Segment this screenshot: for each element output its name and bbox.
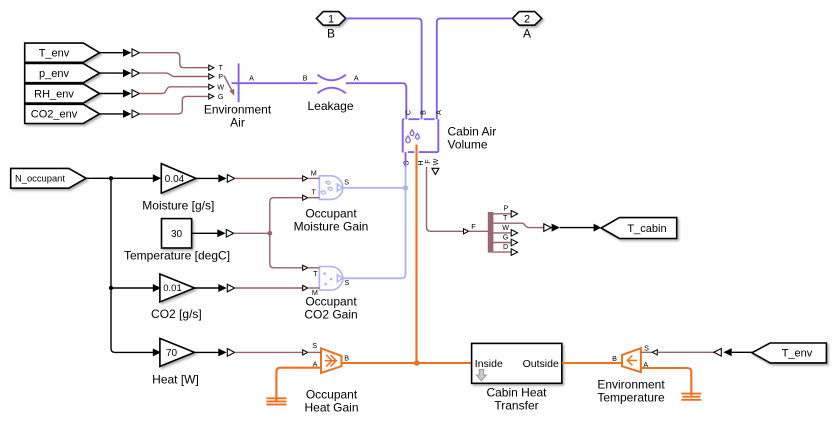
Environment Temperature source block (622, 348, 641, 372)
svg-text:T_env: T_env (782, 348, 813, 360)
goto tag T_cabin (601, 218, 677, 239)
wire CO2 gain to converter (195, 284, 235, 292)
svg-text:W: W (431, 158, 440, 165)
Occupant CO2 Gain port M (303, 285, 320, 297)
svg-text:Occupant: Occupant (305, 294, 357, 308)
Environment Temperature port S (641, 344, 657, 355)
svg-text:T: T (503, 213, 508, 222)
svg-text:Heat [W]: Heat [W] (152, 372, 199, 386)
svg-text:S: S (312, 341, 317, 350)
Leakage restriction block (318, 75, 346, 93)
svg-text:1: 1 (328, 14, 334, 26)
Occupant Moisture Gain label (294, 206, 369, 233)
constant block 30 (162, 219, 192, 248)
wire RH_env to converter (100, 90, 140, 98)
PS wire to Occupant CO2 Gain M port (235, 287, 303, 289)
Environment Air port W (209, 82, 225, 91)
svg-text:S: S (644, 344, 649, 353)
svg-text:B: B (419, 110, 428, 115)
Cabin Heat Transfer block (472, 343, 562, 383)
svg-text:S: S (344, 178, 349, 187)
svg-text:p_env: p_env (39, 68, 69, 80)
Occupant Moisture Gain source block (319, 176, 342, 200)
svg-text:CO2_env: CO2_env (31, 109, 78, 121)
svg-text:P: P (218, 72, 223, 81)
Cabin Heat Transfer down-arrow icon (477, 370, 487, 381)
wire N_occupant to Moisture gain (86, 174, 161, 182)
svg-text:Inside: Inside (475, 358, 503, 370)
Occupant Heat Gain label (304, 387, 358, 414)
wire N_occupant branch down (110, 178, 112, 288)
PS wire p_env to P port (139, 73, 208, 76)
sensor output D (493, 242, 517, 255)
Cabin Air Volume label (448, 125, 497, 152)
PS wire sensor T to converter (511, 223, 544, 227)
Environment Air source block U_env (224, 63, 243, 102)
svg-text:CO2 Gain: CO2 Gain (304, 307, 357, 321)
PS wire junction to Occupant Moisture Gain T port (270, 198, 303, 234)
wire inport 1 to Cabin Air Volume B port (346, 18, 422, 126)
measurement selector bar (488, 212, 494, 253)
svg-text:Temperature: Temperature (597, 391, 665, 405)
svg-text:P: P (504, 204, 509, 213)
svg-text:G: G (503, 233, 509, 242)
svg-text:B: B (327, 27, 335, 41)
from tag RH_env (25, 84, 100, 103)
wire Cabin Air Volume S port stub (405, 152, 407, 166)
PS wire CO2_env to G port (139, 96, 208, 114)
gain block Moisture 0.04 (161, 164, 196, 194)
Occupant CO2 Gain port T (303, 265, 320, 278)
wire CO2 Gain S to S network (343, 274, 406, 278)
svg-text:Occupant: Occupant (306, 387, 358, 401)
thermal reference ground right (681, 394, 701, 400)
svg-text:D: D (503, 242, 508, 251)
svg-text:A: A (434, 110, 443, 115)
wire branch to Heat gain (111, 288, 161, 356)
Cabin Heat Transfer label (486, 386, 547, 413)
wire F port into sensor bar (469, 230, 489, 232)
wire Occupant Heat Gain B to Inside (342, 362, 472, 364)
svg-text:B: B (612, 354, 617, 363)
svg-text:T_cabin: T_cabin (627, 223, 666, 235)
from tag T_env (top-left) (25, 43, 100, 62)
PS wire T_env to Environment Air T port (139, 53, 208, 68)
wire Moisture Gain S to junction (343, 187, 406, 189)
svg-text:CO2 [g/s]: CO2 [g/s] (151, 307, 202, 321)
Occupant Moisture Gain port T (303, 188, 320, 201)
PS wire 30 to junction (234, 232, 270, 234)
wire p_env to converter (100, 69, 140, 77)
PS wire RH_env to W port (139, 87, 208, 94)
wire Moisture gain to converter (196, 174, 235, 182)
svg-text:T: T (219, 63, 224, 72)
wire S network vertical (light blue) (405, 167, 407, 275)
from tag CO2_env (25, 104, 100, 123)
PS wire junction to Occupant CO2 Gain T port (270, 233, 303, 267)
svg-text:70: 70 (166, 348, 178, 359)
svg-text:Volume: Volume (448, 138, 488, 152)
svg-text:A: A (354, 74, 359, 83)
wire Heat gain to converter (195, 348, 235, 356)
svg-text:W: W (502, 223, 509, 232)
svg-text:Environment: Environment (204, 103, 272, 117)
wire Cabin Air Volume H port down to heat junction (415, 145, 417, 363)
wire 30 to converter (192, 229, 234, 237)
Cabin Air Volume block body (403, 119, 439, 152)
svg-text:Leakage: Leakage (307, 99, 353, 113)
from tag T_env (right) (752, 343, 827, 363)
Environment Temperature label (597, 378, 665, 405)
junction node heat (414, 360, 420, 366)
wire Environment Air A to Leakage B (243, 82, 318, 84)
svg-text:Air: Air (230, 116, 245, 130)
svg-text:C: C (403, 110, 412, 115)
junction node S network (403, 185, 408, 190)
gain block Heat 70 (160, 338, 195, 366)
svg-text:0.01: 0.01 (163, 283, 182, 294)
PS wire T_env to Environment Temperature S (657, 351, 714, 353)
Cabin Air Volume droplet icons (406, 130, 419, 143)
wire Environment Temperature A to thermal reference (641, 368, 691, 396)
svg-text:G: G (218, 92, 224, 101)
svg-text:Cabin Air: Cabin Air (448, 125, 497, 139)
gain block CO2 0.01 (160, 274, 195, 302)
Occupant Heat Gain source block (321, 348, 342, 373)
svg-text:Heat Gain: Heat Gain (304, 400, 358, 414)
svg-text:Cabin Heat: Cabin Heat (486, 386, 547, 400)
svg-text:2: 2 (524, 14, 530, 26)
svg-text:Moisture Gain: Moisture Gain (294, 219, 369, 233)
converter to T_cabin (544, 224, 601, 232)
svg-text:A: A (249, 74, 254, 83)
inport 2 hexagon (512, 12, 541, 26)
inport 1 hexagon (316, 12, 345, 26)
Environment Air port G (209, 92, 224, 101)
junction node on N_occupant wire (109, 176, 113, 180)
wire T_env to converter (100, 49, 140, 57)
from tag N_occupant (11, 168, 86, 188)
PS wire to Occupant Moisture Gain M port (235, 177, 303, 179)
Environment Air port T (209, 63, 224, 72)
svg-text:N_occupant: N_occupant (15, 173, 65, 184)
svg-text:B: B (303, 74, 308, 83)
svg-text:Occupant: Occupant (305, 206, 357, 220)
svg-text:W: W (217, 82, 224, 91)
converter from T_env tag (714, 348, 753, 356)
svg-text:S: S (345, 278, 350, 287)
wire Outside to Environment Temperature B (562, 362, 622, 364)
PS wire to Occupant Heat Gain S port (235, 351, 303, 353)
svg-text:M: M (311, 168, 317, 177)
svg-text:F: F (471, 222, 476, 231)
svg-text:0.04: 0.04 (165, 174, 185, 185)
svg-text:A: A (523, 27, 531, 41)
wire branch to CO2 gain (111, 284, 161, 292)
svg-text:30: 30 (171, 229, 183, 240)
Occupant CO2 Gain label (304, 294, 357, 321)
svg-text:T: T (313, 269, 318, 278)
sensor output T (493, 213, 511, 223)
junction node at CO2 branch (109, 286, 113, 290)
svg-text:B: B (344, 353, 349, 362)
wire Occupant Heat Gain A to thermal reference (276, 368, 321, 402)
svg-text:Outside: Outside (523, 358, 559, 370)
wire Leakage A to Cabin Air Volume C port (346, 83, 407, 126)
svg-text:T: T (312, 188, 317, 197)
svg-text:Temperature [degC]: Temperature [degC] (124, 248, 230, 262)
wire CO2_env to converter (100, 110, 140, 118)
junction node temperature (267, 231, 272, 236)
sensor output G (493, 233, 517, 246)
Occupant Heat Gain port S (303, 341, 321, 355)
Environment Air port P (209, 72, 224, 81)
svg-text:T_env: T_env (39, 48, 70, 60)
Environment Air label (204, 103, 272, 130)
svg-text:Moisture [g/s]: Moisture [g/s] (142, 198, 214, 212)
sensor output W (493, 223, 517, 236)
svg-text:Environment: Environment (597, 378, 665, 392)
Occupant Moisture Gain port M (303, 168, 320, 181)
svg-text:Transfer: Transfer (494, 399, 538, 413)
thermal reference ground left (266, 398, 286, 404)
wire Cabin Air Volume F to sensor F port (427, 167, 464, 231)
sensor F port triangle (464, 222, 477, 234)
Occupant CO2 Gain source block (319, 267, 342, 291)
sensor output P (493, 204, 517, 218)
from tag p_env (25, 64, 100, 83)
svg-text:RH_env: RH_env (34, 88, 74, 100)
wire inport 2 to Cabin Air Volume A port (437, 18, 513, 125)
unconnected port marker under W (432, 168, 439, 174)
